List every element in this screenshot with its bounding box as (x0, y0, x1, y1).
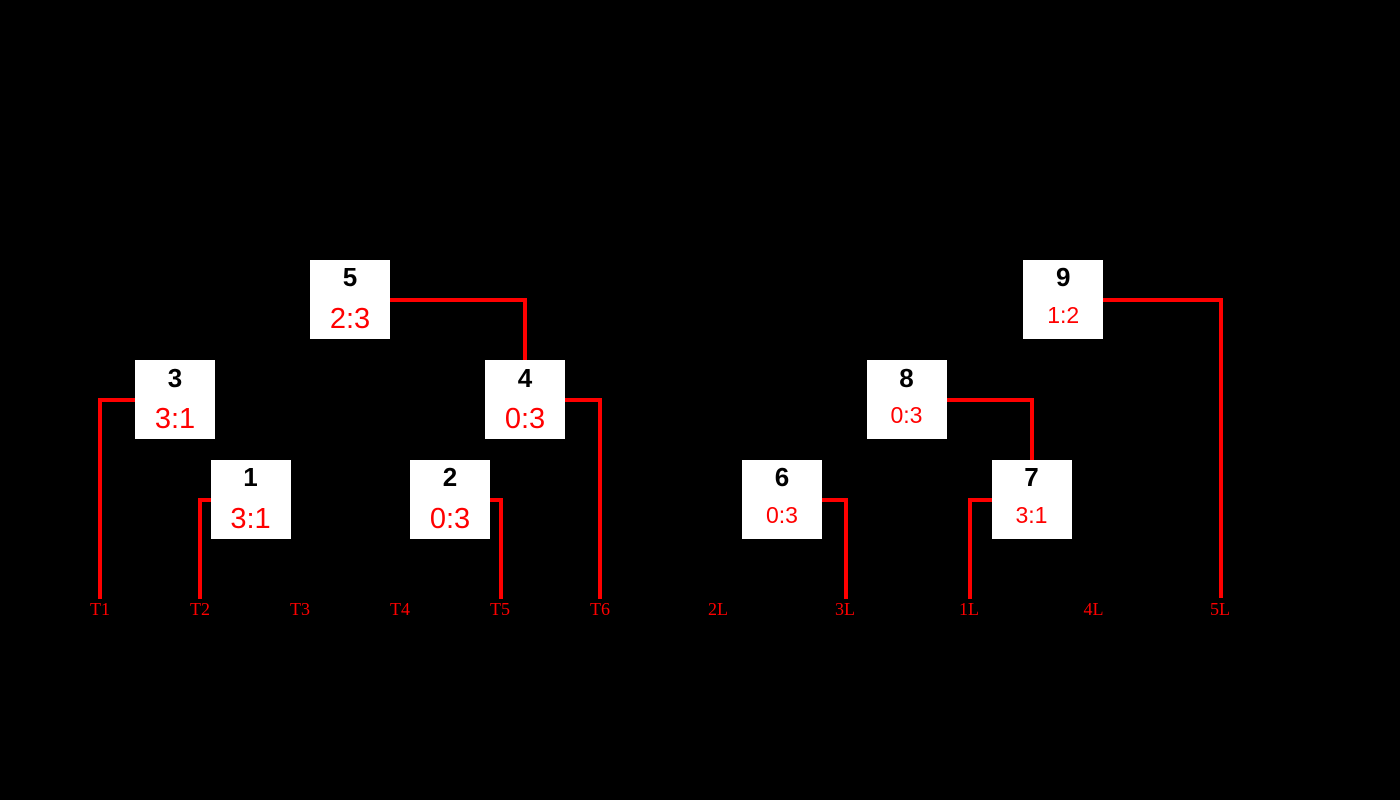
label T6 (578, 600, 622, 618)
wire box9 to 5L horizontal (1103, 298, 1222, 302)
match box 2 (410, 460, 490, 539)
label T2 (178, 600, 222, 618)
match box 1 (211, 460, 291, 539)
wire T1 vertical (98, 398, 102, 600)
wire box6 to 3L horizontal (822, 498, 848, 502)
wire box8 to box7 horizontal (947, 398, 1034, 402)
label T4 (378, 600, 422, 618)
wire T2 vertical (198, 498, 202, 600)
wire box3 to T1 horizontal (98, 398, 135, 402)
match box 7 (992, 460, 1072, 539)
wire T6 vertical (598, 398, 602, 600)
match box 6 (742, 460, 822, 539)
match box 8 (867, 360, 947, 439)
match box 4 (485, 360, 565, 439)
label T5 (478, 600, 522, 618)
wire box2 to T5 horizontal (490, 498, 503, 502)
label T3 (278, 600, 322, 618)
wire box8 to box7 vertical (1030, 398, 1034, 460)
label 2L (696, 600, 740, 618)
label 4L (1072, 600, 1116, 618)
match box 9 (1023, 260, 1103, 339)
wire 5L vertical (1219, 298, 1223, 599)
label T1 (78, 600, 122, 618)
wire box5 to box4 horizontal (390, 298, 527, 302)
wire 1L vertical (968, 498, 972, 600)
wire box7 to 1L horizontal (968, 498, 992, 502)
wire box1 to T2 horizontal (198, 498, 211, 502)
label 1L (947, 600, 991, 618)
wire box4 to T6 horizontal (565, 398, 602, 402)
label 3L (823, 600, 867, 618)
match box 3 (135, 360, 215, 439)
wire 3L vertical (844, 498, 848, 600)
wire T5 vertical (499, 498, 503, 600)
wire box5 to box4 vertical (523, 298, 527, 361)
label 5L (1198, 600, 1242, 618)
match box 5 (310, 260, 390, 340)
